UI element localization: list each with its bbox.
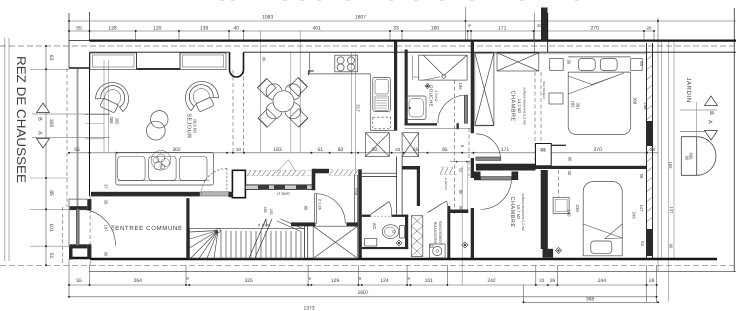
douche left wall [405,50,408,126]
wall chambre2/bed zone [541,170,548,249]
top facade axis [0,45,736,47]
svg-text:80: 80 [459,190,464,195]
svg-text:4,9 m2: 4,9 m2 [434,91,438,102]
jardin thin verticals [657,41,659,271]
stair hall door [315,194,317,224]
svg-text:30: 30 [236,147,242,152]
svg-text:51: 51 [48,253,54,259]
chamber1 bottom wall thick band [476,164,536,171]
WC box walls [362,215,371,217]
svg-text:365: 365 [115,118,120,126]
garden stoop rect + half round [681,137,716,176]
svg-text:264: 264 [134,278,143,284]
top chain row2 line [69,30,654,32]
svg-text:51: 51 [318,147,324,153]
svg-text:DOUCHE: DOUCHE [429,85,434,107]
svg-text:242: 242 [487,278,496,284]
svg-text:308: 308 [109,117,114,125]
armchair 2 [180,76,222,116]
svg-text:270: 270 [591,25,600,31]
svg-text:33: 33 [539,278,545,284]
svg-text:63: 63 [48,55,54,61]
WC low cabinet [365,239,377,247]
svg-text:1607: 1607 [357,290,368,296]
left wall axis [66,68,68,207]
svg-text:90: 90 [669,244,674,249]
facade niche with half-round [230,52,244,77]
svg-text:85: 85 [48,190,54,196]
svg-text:33: 33 [541,148,546,153]
svg-text:60: 60 [338,147,344,153]
douche dim dashed [453,80,455,214]
svg-text:101: 101 [48,223,54,232]
svg-text:128: 128 [108,25,117,31]
svg-text:28: 28 [646,25,652,30]
svg-text:101: 101 [425,278,434,284]
svg-text:33: 33 [393,25,399,31]
straight treads [221,230,301,258]
svg-text:300: 300 [48,119,54,128]
svg-text:33: 33 [395,147,401,152]
svg-text:368: 368 [586,297,595,303]
armchair 1 [92,77,134,117]
svg-text:180: 180 [567,210,572,218]
svg-text:195: 195 [458,83,463,91]
bottom extension verticals [68,259,70,297]
svg-text:CHAMBRE: CHAMBRE [509,196,515,227]
svg-text:124: 124 [380,278,389,284]
window bench 2 [180,53,226,70]
svg-text:30: 30 [104,200,109,205]
svg-text:WC: WC [372,223,377,230]
stair hall closet X [313,226,358,258]
svg-text:REZ DE CHAUSSEE: REZ DE CHAUSSEE [14,56,28,183]
right facade glazing [646,43,648,259]
wardrobe X chamber1 vertical [475,53,494,126]
shower tray [419,55,467,80]
mini dim at 161.6 [450,161,471,163]
top interior face line [90,51,230,53]
winder fan [190,231,219,259]
corridor bottom wall stub [449,210,468,214]
interior chain y=152.8 [69,152,658,154]
sink double [373,78,391,112]
entree / stair wall band [245,185,313,190]
chamber2 bottom pier [543,249,554,258]
svg-text:107: 107 [104,225,109,233]
left chain vertical [45,46,47,265]
svg-text:198: 198 [643,102,648,110]
stairs/landing separation [304,226,306,259]
insulation hatch strip [247,170,358,176]
left building edge line x=69 [68,13,70,68]
kitchen top counter [310,52,371,74]
buanderie hatched duct [411,216,423,257]
svg-text:surface moyenne 2,2 m2: surface moyenne 2,2 m2 [521,193,525,230]
svg-text:a percer: a percer [444,178,448,191]
bottom chain A [69,284,657,286]
entry door leaf + arc [76,209,79,246]
svg-text:317: 317 [356,104,361,112]
svg-text:90: 90 [568,157,573,162]
left exterior wall corner [69,67,90,69]
chamber1 door [476,157,501,160]
buanderie right wall [447,206,450,259]
svg-text:171: 171 [501,147,510,153]
svg-text:52: 52 [459,168,464,173]
svg-text:33: 33 [537,23,543,28]
svg-text:139: 139 [200,25,209,31]
bottom exterior wall [90,258,717,260]
vertical extension x=658 top [657,18,659,41]
porch bottom-left corner [69,257,90,259]
svg-text:98: 98 [459,206,464,211]
nightstand left ch1 [550,59,564,71]
svg-text:rf 1h00: rf 1h00 [277,191,290,196]
svg-text:55: 55 [76,278,82,284]
long wall corridor/chambers [471,41,474,133]
corridor closet A X [366,133,390,157]
svg-text:239: 239 [575,205,580,213]
corridor closet B X [402,133,419,157]
svg-text:65: 65 [413,147,419,153]
entree/stair wall [186,198,189,258]
svg-text:26: 26 [550,278,556,284]
vertical extension at x=465 [465,7,467,41]
kitchen right wall [394,42,397,131]
sejour dashed door [226,169,228,192]
svg-text:30: 30 [567,171,572,176]
svg-text:1373: 1373 [303,306,314,311]
buanderie door ajar [428,201,447,213]
svg-text:55: 55 [76,25,82,31]
svg-text:rf 1/2h: rf 1/2h [318,199,322,210]
top chain line 1083/1607 [69,20,736,22]
insulation hatch strip right part [440,167,453,174]
flower deco on sofa [151,151,171,171]
insulation leader callout [276,160,296,173]
nightstand chamber2 [553,198,569,214]
dishwasher dashed [373,117,391,129]
svg-text:BUANDERIE: BUANDERIE [433,222,437,245]
svg-text:185: 185 [263,206,267,212]
svg-text:B: B [708,111,714,115]
bottom chain B 1607 [69,296,657,298]
svg-text:147: 147 [639,205,644,213]
svg-text:50: 50 [567,60,572,65]
left inner face x=89.5 upper extension [89,12,91,41]
stair hall top wall + door jambs [291,222,316,226]
douche bottom wall [405,123,437,125]
duct strip verticals [396,157,398,215]
WC door ajar [371,215,392,217]
svg-text:36: 36 [262,57,267,62]
top tiny sheet marks [220,0,224,1]
svg-text:37: 37 [104,184,109,189]
corridor east stub [402,166,420,170]
svg-text:180: 180 [431,25,440,31]
party wall pillar [536,144,552,166]
top chain2 dots [68,30,70,32]
dining table quatrefoil [266,84,301,119]
corridor dashed [468,128,470,176]
top facade thick wall [90,39,736,41]
party wall above facade [541,8,548,42]
washbasin douche [407,96,427,120]
dimension tick dots [45,20,659,303]
svg-text:surface moyenne 3,3 m2: surface moyenne 3,3 m2 [523,87,527,124]
wardrobe X chamber1 horizontal [497,53,539,71]
svg-text:53: 53 [640,241,645,246]
poufs circles [151,111,168,128]
step wall up [312,169,316,191]
svg-text:10,7 M2: 10,7 M2 [516,205,521,220]
svg-text:301: 301 [576,103,581,111]
svg-text:129: 129 [331,278,340,284]
svg-text:53: 53 [639,61,644,66]
right sheet border [733,8,735,272]
svg-text:ENTREE COMMUNE: ENTREE COMMUNE [115,225,182,232]
svg-text:158: 158 [354,188,359,196]
svg-text:28,8 M2: 28,8 M2 [193,119,198,134]
top chain tick stubs [135,31,137,41]
svg-text:171: 171 [498,25,507,31]
nightstand right ch1 [631,59,643,71]
svg-text:B: B [37,117,43,121]
dining construction verticals [260,31,262,152]
svg-text:JARDIN: JARDIN [685,77,692,102]
svg-text:A: A [37,131,43,135]
bottom chain B dots [68,296,70,298]
svg-text:270: 270 [594,147,603,153]
svg-text:CHAMBRE: CHAMBRE [510,90,516,121]
svg-text:55: 55 [74,147,80,153]
svg-text:28: 28 [650,147,656,152]
svg-text:14,2 M2: 14,2 M2 [517,99,522,114]
svg-text:mur mitoyen: mur mitoyen [542,81,546,99]
bottom chain C dots [523,301,525,303]
svg-text:183: 183 [273,147,282,153]
window bench 1 [90,53,137,70]
svg-text:rf 1h00: rf 1h00 [258,223,271,228]
break line [281,219,304,229]
svg-text:SEJOUR: SEJOUR [186,113,192,138]
bottom facade axis [0,264,736,266]
arrow line [249,219,266,258]
sofa [116,153,214,186]
section lines left [32,113,110,115]
svg-text:58: 58 [639,174,644,179]
svg-text:90: 90 [304,206,309,211]
interior chain dots [68,152,70,154]
svg-text:RANGEMENT: RANGEMENT [438,221,442,246]
niche dashed verticals [232,70,234,153]
pier block entree [232,170,245,197]
svg-text:95: 95 [442,147,448,153]
entree porch walls [70,206,88,210]
facade glazing hatch right [647,55,653,222]
svg-text:A: A [707,120,713,124]
party wall dashed [534,72,536,165]
svg-text:1607: 1607 [355,14,366,20]
svg-text:28: 28 [649,278,655,284]
sejour / entree wall [91,192,200,197]
chamber2 door [481,177,512,180]
sejour thin verticals [103,60,105,152]
svg-text:1083: 1083 [262,14,273,20]
toilet WC [382,225,405,239]
svg-text:30: 30 [104,252,109,257]
svg-text:302: 302 [172,147,181,153]
stove [335,55,358,72]
WC left vertical wall [358,169,362,258]
section arrows left [37,103,50,113]
ventilation diamonds [396,84,562,254]
svg-text:325: 325 [245,278,254,284]
chamber2 door jamb stub [512,172,519,181]
svg-text:182: 182 [269,208,273,214]
window pier 1 [136,52,138,69]
svg-text:401: 401 [313,25,322,31]
svg-text:106: 106 [668,162,673,170]
bottom chain A dots [68,284,70,286]
left chain dots [45,45,47,47]
left sheet border lines [4,38,6,261]
douche door [464,95,467,123]
svg-text:120: 120 [153,25,162,31]
svg-text:183: 183 [571,101,576,109]
svg-text:308: 308 [633,97,638,105]
svg-text:137: 137 [669,207,674,215]
section lines right [680,109,717,111]
dining chairs [258,78,308,128]
svg-text:40: 40 [233,25,239,31]
washing machine [430,244,446,258]
kitchen right counter column [369,74,371,130]
chamber1 dresser [549,93,563,104]
section arrows right [705,96,718,106]
left side short ticks [30,68,69,70]
svg-text:244: 244 [598,278,607,284]
svg-text:90: 90 [685,156,690,161]
chamber2 bed single [583,182,622,256]
chamber1 bed [568,57,631,135]
corridor wall band above WC [362,172,397,174]
chamber1/2 wall band [536,166,647,169]
bottom chain C 368 [524,301,659,303]
svg-text:92: 92 [372,147,378,153]
svg-text:246: 246 [632,212,637,220]
